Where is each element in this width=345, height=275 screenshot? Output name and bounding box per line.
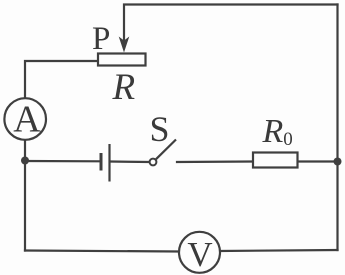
svg-text:P: P: [92, 21, 110, 57]
wire bottom: voltmeter to right corner: [220, 250, 338, 251]
voltmeter V: [179, 232, 220, 274]
wire right vertical rail: [336, 5, 338, 251]
wire middle: battery to switch: [111, 160, 149, 163]
svg-text:S: S: [150, 109, 170, 149]
battery cell: long positive plate: [108, 144, 110, 182]
wire middle: left junction to battery: [25, 160, 100, 163]
rheostat R (slide resistor body): [98, 54, 146, 66]
junction node left (ammeter branch / battery branch): [21, 157, 29, 165]
wire bottom: left corner to voltmeter: [25, 251, 180, 252]
resistor R0 body: [253, 153, 298, 168]
battery cell: short negative plate: [100, 153, 103, 171]
wire middle: resistor R0 to right junction: [299, 160, 338, 162]
wire top-left horizontal (ammeter branch to rheostat left terminal): [25, 61, 97, 97]
wire left vertical below ammeter: [24, 141, 26, 251]
switch S pivot: [150, 159, 157, 166]
wire top horizontal (wiper to right rail): [124, 5, 338, 41]
svg-text:V: V: [187, 235, 212, 274]
ammeter A: [4, 98, 46, 140]
svg-text:A: A: [13, 99, 41, 141]
rheostat wiper arrow: [119, 37, 130, 53]
switch S blade (open): [156, 140, 176, 160]
junction node right (R0 branch / right rail): [334, 158, 342, 166]
svg-text:R: R: [112, 67, 136, 108]
wire middle: switch to resistor R0: [177, 160, 253, 163]
